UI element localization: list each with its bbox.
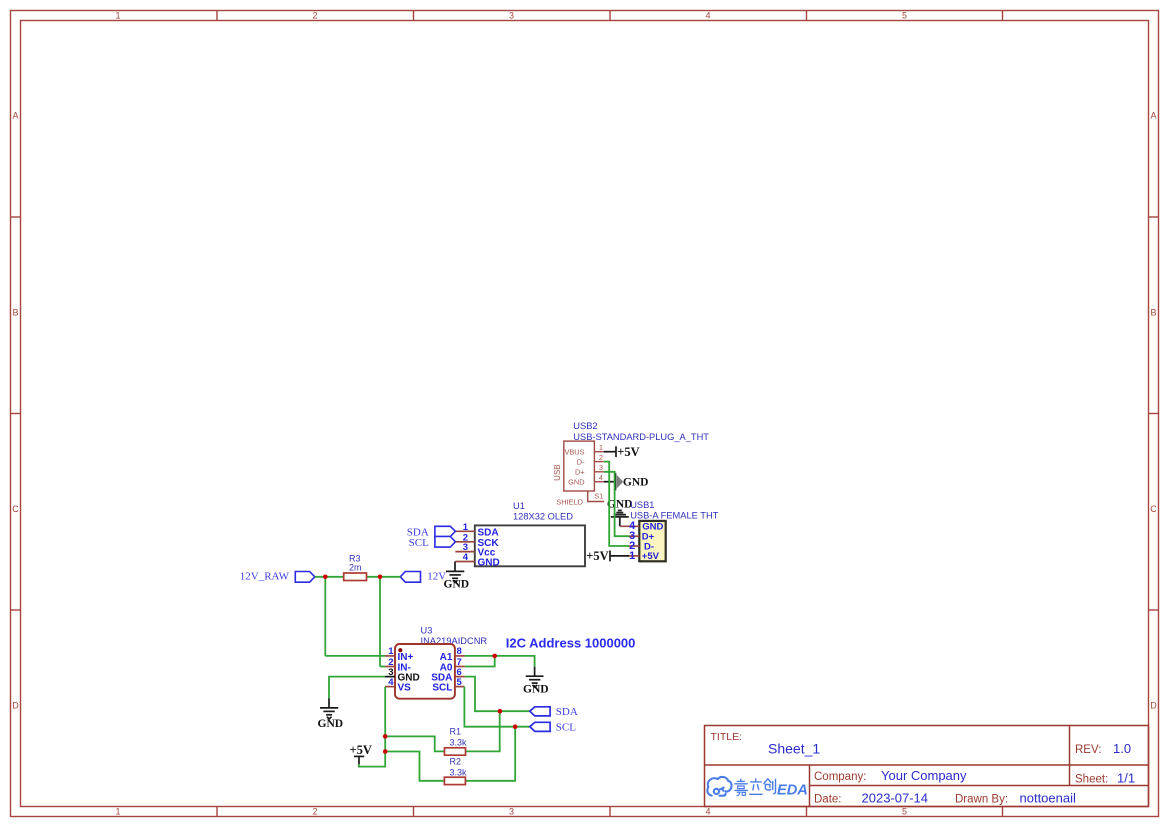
svg-text:GND: GND <box>568 478 584 487</box>
svg-text:12V_RAW: 12V_RAW <box>240 570 290 582</box>
svg-text:USB: USB <box>553 464 562 480</box>
svg-text:GND: GND <box>623 477 649 489</box>
svg-text:SCL: SCL <box>556 722 576 734</box>
svg-text:GND: GND <box>607 498 633 510</box>
svg-text:SHIELD: SHIELD <box>556 497 583 506</box>
svg-text:5: 5 <box>902 807 907 817</box>
svg-text:Company:: Company: <box>814 771 866 783</box>
svg-text:USB2: USB2 <box>573 421 597 431</box>
svg-text:D: D <box>12 701 19 711</box>
svg-text:D-: D- <box>577 457 585 466</box>
svg-text:VS: VS <box>398 683 412 694</box>
svg-text:3.3k: 3.3k <box>450 738 468 748</box>
svg-text:D: D <box>1150 701 1157 711</box>
svg-text:R1: R1 <box>450 727 462 737</box>
svg-text:GND: GND <box>318 718 344 730</box>
svg-text:1: 1 <box>463 522 469 533</box>
svg-text:1: 1 <box>599 443 603 452</box>
svg-text:3: 3 <box>509 11 514 21</box>
svg-text:3: 3 <box>599 463 603 472</box>
svg-text:1: 1 <box>115 807 120 817</box>
svg-text:+5V: +5V <box>642 551 660 562</box>
svg-text:S1: S1 <box>594 492 603 501</box>
svg-text:USB1: USB1 <box>630 500 654 510</box>
svg-text:TITLE:: TITLE: <box>711 731 743 743</box>
svg-text:128X32 OLED: 128X32 OLED <box>513 511 573 521</box>
svg-text:Date:: Date: <box>814 794 842 806</box>
svg-text:SCL: SCL <box>432 683 452 694</box>
svg-text:4: 4 <box>705 807 710 817</box>
svg-text:A: A <box>12 111 18 121</box>
svg-text:8: 8 <box>457 646 462 657</box>
svg-text:Sheet:: Sheet: <box>1075 774 1108 786</box>
svg-text:+5V: +5V <box>586 549 608 563</box>
svg-text:2: 2 <box>312 11 317 21</box>
svg-text:+5V: +5V <box>617 445 639 459</box>
svg-text:2m: 2m <box>349 563 362 573</box>
svg-text:GND: GND <box>478 558 500 569</box>
svg-text:I2C Address 1000000: I2C Address 1000000 <box>506 635 636 650</box>
svg-text:VBUS: VBUS <box>564 448 584 457</box>
svg-text:U3: U3 <box>421 626 433 636</box>
svg-text:GND: GND <box>444 579 470 591</box>
svg-text:1/1: 1/1 <box>1117 771 1135 786</box>
svg-text:1: 1 <box>388 646 394 657</box>
svg-text:GND: GND <box>523 684 549 696</box>
svg-text:4: 4 <box>705 11 710 21</box>
svg-text:SCL: SCL <box>409 537 429 549</box>
svg-text:4: 4 <box>463 552 469 563</box>
svg-text:USB-STANDARD-PLUG_A_THT: USB-STANDARD-PLUG_A_THT <box>573 432 709 442</box>
svg-text:3.3k: 3.3k <box>450 768 468 778</box>
svg-text:Drawn By:: Drawn By: <box>955 794 1008 806</box>
svg-text:+5V: +5V <box>350 743 372 757</box>
svg-text:U1: U1 <box>513 501 525 511</box>
svg-text:5: 5 <box>457 677 463 688</box>
svg-text:R2: R2 <box>450 757 462 767</box>
svg-text:Sheet_1: Sheet_1 <box>768 741 820 757</box>
svg-text:3: 3 <box>388 667 393 678</box>
svg-text:SDA: SDA <box>478 527 499 538</box>
svg-text:SDA: SDA <box>556 706 578 718</box>
svg-text:B: B <box>12 308 18 318</box>
svg-text:12V: 12V <box>427 570 446 582</box>
svg-text:GND: GND <box>398 673 420 684</box>
svg-text:C: C <box>1150 504 1157 514</box>
svg-text:EDA: EDA <box>777 782 808 798</box>
svg-text:nottoenail: nottoenail <box>1020 791 1076 806</box>
svg-text:4: 4 <box>388 677 394 688</box>
svg-text:2: 2 <box>312 807 317 817</box>
svg-text:C: C <box>12 504 19 514</box>
svg-text:2023-07-14: 2023-07-14 <box>862 791 929 806</box>
svg-text:2: 2 <box>599 453 603 462</box>
svg-text:USB-A FEMALE THT: USB-A FEMALE THT <box>630 510 718 520</box>
svg-text:IN+: IN+ <box>398 652 414 663</box>
svg-text:A1: A1 <box>440 652 453 663</box>
svg-text:Your Company: Your Company <box>881 768 967 783</box>
svg-text:D+: D+ <box>575 468 585 477</box>
svg-text:5: 5 <box>902 11 907 21</box>
svg-text:B: B <box>1150 308 1156 318</box>
svg-text:3: 3 <box>509 807 514 817</box>
svg-text:REV:: REV: <box>1075 744 1101 756</box>
svg-text:4: 4 <box>599 473 603 482</box>
svg-text:1: 1 <box>629 550 635 562</box>
svg-text:1: 1 <box>115 11 120 21</box>
svg-text:A: A <box>1150 111 1156 121</box>
svg-text:1.0: 1.0 <box>1113 741 1131 756</box>
